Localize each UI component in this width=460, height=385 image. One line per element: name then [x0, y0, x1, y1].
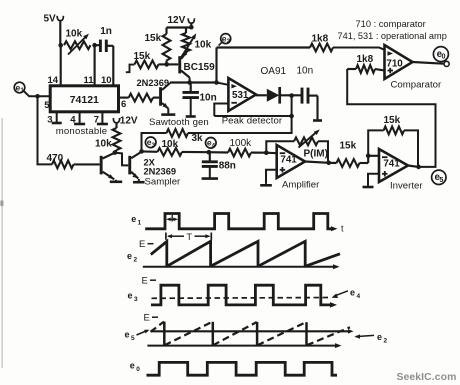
svg-text:2N2369: 2N2369 — [137, 78, 170, 88]
wire node A to pin 14 — [60, 45, 62, 86]
wire capacitor 1n to pin 10 — [106, 46, 113, 86]
svg-text:12V: 12V — [120, 116, 138, 127]
svg-text:741, 531 : operational amp: 741, 531 : operational amp — [338, 31, 447, 41]
waveform e1 tau marker — [166, 215, 178, 222]
svg-text:88n: 88n — [219, 160, 236, 171]
resistor 15k (inverter feedback) — [368, 115, 418, 167]
wire diode to node F — [280, 94, 302, 96]
node e5 terminal circle — [432, 170, 446, 184]
node K junction (inverter - input) — [366, 154, 371, 164]
capacitor 10n (sawtooth integrator) — [183, 83, 217, 104]
svg-text:1k8: 1k8 — [357, 54, 374, 65]
node C junction (e1/pin5/470) — [35, 94, 40, 99]
svg-text:2: 2 — [384, 338, 388, 345]
svg-text:15k: 15k — [145, 33, 162, 44]
svg-text:5V: 5V — [44, 13, 57, 24]
op-amp U5 710 (comparator) — [385, 45, 413, 79]
resistor (2N2369 base, from pin 6) — [129, 94, 159, 102]
pin 3 ground stub — [47, 112, 62, 126]
svg-text:10k: 10k — [195, 40, 212, 51]
svg-text:710 : comparator: 710 : comparator — [356, 19, 426, 29]
waveform e3 square pulses — [151, 285, 330, 305]
node e1 terminal circle — [14, 82, 25, 94]
svg-text:2: 2 — [134, 257, 138, 264]
ground (inverter + input) — [363, 185, 374, 187]
wire amp output — [305, 162, 329, 163]
node e0 terminal circle — [433, 47, 448, 62]
wire 10k to node e4 — [182, 151, 209, 153]
wire 470 loop from node C — [38, 96, 53, 164]
waveform e4 pointer and label — [332, 288, 361, 301]
resistor 1k8 (comparator feedback input) — [347, 54, 384, 73]
diode OA91 — [261, 66, 287, 104]
op-amp U2 531 (peak detector) — [228, 78, 256, 111]
svg-text:e: e — [350, 288, 355, 298]
svg-text:Sawtooth gen: Sawtooth gen — [149, 117, 209, 128]
node H junction (10k / Q3 collector / Q4 base) — [113, 150, 118, 155]
svg-text:E: E — [142, 276, 148, 287]
wire 710 output to e0 — [413, 62, 445, 64]
wire node I to 741 - input — [266, 152, 276, 155]
wire 1k8 to 710 - input — [333, 48, 385, 50]
svg-text:10n: 10n — [200, 93, 217, 104]
svg-text:e: e — [128, 291, 133, 301]
svg-text:2N2369: 2N2369 — [144, 166, 177, 176]
resistor 15k (amp to inverter) — [329, 141, 369, 167]
svg-text:0: 0 — [442, 52, 446, 61]
node J junction (amp output) — [326, 161, 331, 166]
waveform e2 overlay solid drops — [164, 322, 306, 346]
svg-text:531: 531 — [232, 90, 249, 101]
node B junction (pot/cap/pin11) — [92, 43, 97, 48]
svg-text:SeekIC.com: SeekIC.com — [397, 372, 457, 383]
svg-text:741: 741 — [280, 154, 297, 165]
node A junction (5V/pot/pin14) — [58, 43, 63, 48]
node E junction (BC159 collector / 10n) — [187, 80, 192, 85]
capacitor 1n (timing) — [100, 26, 112, 52]
ground (peak hold cap) — [313, 119, 322, 121]
waveform e0 square wave — [147, 362, 338, 375]
wire node B to capacitor 1n — [95, 44, 101, 46]
label Sawtooth gen — [149, 117, 209, 128]
pin 10 label — [101, 75, 112, 86]
svg-text:2: 2 — [227, 38, 231, 45]
svg-text:4: 4 — [212, 142, 216, 149]
svg-text:e: e — [125, 330, 130, 340]
wire node K to 741 inverter - input — [368, 155, 379, 157]
svg-text:12V: 12V — [168, 15, 186, 26]
svg-text:10k: 10k — [66, 29, 83, 40]
waveform e2 overlay pointer and label — [355, 332, 388, 345]
svg-text:15k: 15k — [134, 51, 151, 62]
watermark SeekIC.com — [397, 372, 457, 383]
svg-text:E: E — [139, 239, 145, 250]
svg-text:3: 3 — [152, 142, 156, 149]
power terminal 5V — [44, 13, 64, 24]
svg-text:100k: 100k — [230, 138, 253, 149]
svg-text:470: 470 — [47, 153, 64, 164]
pin 4 ground stub — [70, 112, 85, 126]
wire inverter + input to ground — [368, 174, 379, 185]
label 710 : comparator — [356, 19, 426, 29]
svg-text:7: 7 — [94, 114, 99, 125]
svg-text:4: 4 — [357, 293, 361, 300]
wire e2 line to comparator — [217, 46, 311, 48]
waveform e1 time axis arrow — [331, 224, 344, 234]
wire inverter output — [408, 166, 419, 167]
node e4 terminal circle — [206, 138, 217, 150]
pin 11 label — [84, 75, 95, 86]
waveform T dimension — [166, 232, 211, 242]
svg-text:5: 5 — [439, 175, 443, 184]
node D junction (15k/15k/BC159 base) — [164, 62, 169, 67]
svg-text:15k: 15k — [340, 141, 357, 152]
waveform e5 E level label — [144, 313, 159, 324]
resistor 470 — [47, 153, 74, 168]
svg-text:1: 1 — [138, 220, 142, 227]
svg-text:e: e — [127, 251, 132, 261]
svg-text:3: 3 — [47, 114, 52, 125]
svg-text:OA91: OA91 — [261, 66, 287, 77]
pin 14 label — [48, 75, 59, 86]
variable resistor P(IM) (gain pot) — [294, 129, 328, 159]
node e3 terminal circle — [145, 137, 156, 149]
waveform e1 label — [131, 214, 141, 227]
svg-text:Sampler: Sampler — [145, 176, 182, 187]
waveform e5 dc level line — [151, 329, 354, 334]
waveform e3 axis arrow — [330, 302, 337, 308]
svg-text:Amplifier: Amplifier — [282, 179, 320, 190]
wire 3k to node e3 — [142, 133, 167, 151]
waveform e3 E level label — [142, 276, 157, 287]
wire sawtooth output rail — [170, 81, 217, 83]
wire 470 to Q3 base — [74, 163, 100, 165]
wire e2 node up to comparator line — [215, 48, 217, 83]
resistor 15k (BC159 bias) — [145, 28, 171, 65]
svg-text:710: 710 — [386, 58, 403, 69]
transistor Q3 2N2369 (sampler driver) — [100, 153, 115, 180]
label Comparator — [391, 79, 442, 90]
power terminal 12V (sampler) — [113, 116, 138, 127]
svg-text:e: e — [131, 214, 136, 224]
ground (Q2 emitter) — [161, 109, 175, 115]
label 741, 531 : operational amp — [338, 31, 447, 41]
node e2 junction — [214, 80, 219, 85]
node I junction (741 amp - input) — [264, 150, 269, 155]
node e3 junction — [139, 149, 144, 154]
waveform e2 label — [127, 251, 138, 264]
terminal small circle e0 — [444, 61, 449, 66]
svg-text:e: e — [377, 332, 382, 342]
wire node G down to 3k line — [188, 116, 292, 133]
label Amplifier — [282, 179, 320, 190]
waveform e4 dashed mean line — [152, 297, 332, 300]
waveform e5 label — [125, 330, 136, 343]
svg-text:e: e — [130, 361, 135, 371]
wire e1 to pin 5 — [24, 91, 51, 97]
transistor Q1 BC159 (PNP current source) — [178, 52, 215, 83]
wire 741 + input to ground — [266, 170, 277, 183]
svg-text:T: T — [186, 232, 192, 242]
resistor 10k (sampler bias) — [95, 123, 120, 153]
ground (amp + input) — [260, 183, 272, 185]
wire amp feedback up — [266, 141, 294, 152]
node G junction (feedback tap) — [289, 114, 294, 119]
waveform e3 label — [128, 291, 139, 304]
node e4 junction — [207, 150, 212, 155]
svg-text:3: 3 — [134, 296, 138, 303]
svg-text:10n: 10n — [297, 66, 314, 77]
wire 531 output to diode — [256, 94, 267, 96]
svg-text:Peak detector: Peak detector — [222, 116, 283, 127]
svg-text:74121: 74121 — [70, 94, 99, 106]
wire 531 feedback (node F to - input) — [214, 96, 291, 116]
scan border artifact left edge — [0, 118, 3, 368]
svg-text:10k: 10k — [162, 139, 179, 150]
wire node B to pin 11 — [94, 45, 96, 86]
waveform e5 pointer arrow — [137, 330, 150, 335]
pulse input glyph (trigger edge symbol) — [126, 65, 135, 73]
label Peak detector — [222, 116, 283, 127]
resistor 10k (sample line) — [142, 139, 182, 156]
waveform e2 overlay dashed sawtooth — [151, 322, 351, 346]
resistor 3k — [167, 129, 204, 144]
svg-text:BC159: BC159 — [184, 62, 216, 73]
ground (Q4 emitter) — [133, 179, 145, 182]
svg-text:0: 0 — [136, 366, 140, 373]
svg-text:5: 5 — [131, 335, 135, 342]
op-amp U3 741 (amplifier) — [277, 145, 305, 178]
wire comparator feedback from inverter output — [347, 69, 435, 167]
op-amp U4 741 (inverter) — [379, 149, 408, 182]
svg-text:1n: 1n — [100, 26, 112, 37]
ground (88n) — [202, 166, 218, 178]
svg-text:6: 6 — [121, 99, 126, 110]
wire e2 node to 531 + input — [217, 83, 229, 85]
variable resistor 10k (monostable timing pot) — [64, 29, 91, 55]
node 12V junction — [189, 25, 194, 30]
waveform e2 sawtooth — [151, 241, 340, 266]
svg-text:Comparator: Comparator — [391, 79, 442, 90]
node F junction (peak hold) — [289, 93, 294, 98]
waveform e2 axis — [143, 264, 340, 269]
svg-text:1k8: 1k8 — [312, 34, 329, 45]
wire 5V to node A — [59, 21, 61, 46]
variable resistor 10k (sawtooth slope pot) — [180, 28, 212, 60]
svg-text:monostable: monostable — [56, 126, 108, 137]
pin 6 wire from 74121 — [119, 98, 129, 110]
svg-text:5: 5 — [44, 100, 50, 111]
svg-text:15k: 15k — [384, 115, 401, 126]
IC U1 74121 monostable — [50, 86, 118, 137]
svg-text:E: E — [144, 313, 150, 324]
svg-text:741: 741 — [383, 158, 400, 169]
svg-text:Inverter: Inverter — [390, 181, 423, 192]
wire 12V top rail — [167, 23, 192, 27]
wire node H to Q4 base — [115, 153, 129, 166]
resistor 15k (BC159 base) — [134, 51, 167, 68]
node e2 terminal circle — [219, 33, 231, 45]
ground (10n sawtooth) — [186, 98, 196, 117]
label Inverter — [390, 181, 423, 192]
svg-text:10k: 10k — [95, 139, 112, 150]
svg-text:4: 4 — [70, 114, 76, 125]
resistor 1k8 (comparator input) — [310, 34, 333, 52]
svg-text:3k: 3k — [192, 133, 204, 144]
waveform e2 E level label — [139, 239, 154, 250]
power terminal 12V (sawtooth) — [168, 15, 195, 26]
wire node D to BC159 base — [167, 63, 179, 65]
pin 7 ground stub — [94, 112, 108, 126]
ground (Q3 emitter) — [110, 180, 122, 182]
svg-text:P(IM): P(IM) — [304, 149, 328, 160]
transistor Q4 2N2369 (sampling switch) — [128, 152, 181, 188]
capacitor 10n (peak hold) — [297, 66, 314, 104]
resistor 100k — [209, 138, 266, 157]
capacitor 88n (sample hold) — [202, 152, 236, 171]
node L junction (inverter output) — [416, 165, 421, 170]
waveform e5 axis — [147, 343, 341, 348]
waveform e1 square pulses — [145, 214, 331, 229]
wire pot to amp output node — [318, 141, 328, 163]
waveform e0 label — [130, 361, 141, 374]
wire 10n to ground — [308, 96, 318, 119]
transistor Q2 2N2369 (sawtooth reset switch) — [137, 78, 171, 108]
pin 5 label — [44, 100, 50, 111]
